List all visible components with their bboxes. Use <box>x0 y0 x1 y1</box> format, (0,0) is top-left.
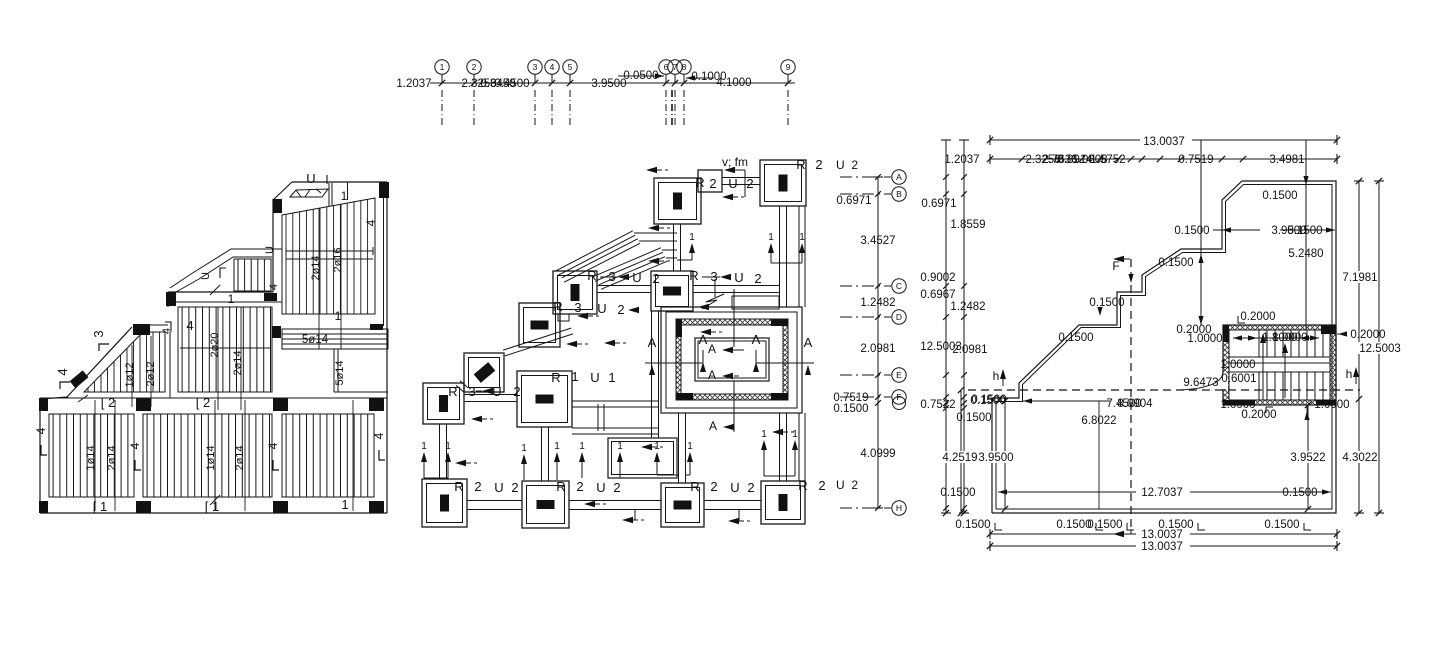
svg-text:R: R <box>587 268 596 283</box>
svg-text:R: R <box>448 384 457 399</box>
svg-text:4: 4 <box>266 442 280 449</box>
svg-text:1: 1 <box>689 232 695 243</box>
svg-text:U: U <box>597 301 606 316</box>
svg-text:2ø14: 2ø14 <box>106 445 118 470</box>
svg-text:2: 2 <box>576 479 583 494</box>
svg-text:A: A <box>708 368 716 382</box>
svg-text:2: 2 <box>617 302 624 317</box>
svg-text:2ø14: 2ø14 <box>234 445 246 470</box>
svg-text:A: A <box>648 335 657 350</box>
svg-text:8: 8 <box>682 62 687 72</box>
svg-text:3: 3 <box>574 300 581 315</box>
svg-text:7.1981: 7.1981 <box>1342 272 1377 284</box>
svg-text:0.1500: 0.1500 <box>1089 297 1124 309</box>
svg-text:1: 1 <box>792 429 798 440</box>
svg-text:13.0037: 13.0037 <box>1143 136 1185 148</box>
svg-text:0.6967: 0.6967 <box>920 289 955 301</box>
svg-text:1: 1 <box>228 292 235 306</box>
svg-text:1: 1 <box>554 441 560 452</box>
svg-text:2ø20: 2ø20 <box>209 332 221 357</box>
svg-text:U: U <box>632 270 641 285</box>
svg-text:3.4981: 3.4981 <box>1269 154 1304 166</box>
svg-text:R: R <box>690 479 699 494</box>
svg-text:0.1500: 0.1500 <box>956 412 991 424</box>
svg-text:R: R <box>796 157 805 172</box>
svg-text:1ø14: 1ø14 <box>85 445 97 470</box>
svg-text:3.9522: 3.9522 <box>1290 452 1325 464</box>
svg-text:2ø16: 2ø16 <box>332 247 344 272</box>
svg-text:2.0981: 2.0981 <box>860 343 895 355</box>
svg-text:5.2480: 5.2480 <box>1288 248 1323 260</box>
svg-text:R: R <box>689 268 698 283</box>
svg-text:0.1500: 0.1500 <box>1282 487 1317 499</box>
svg-text:5ø14: 5ø14 <box>334 360 346 385</box>
svg-text:R: R <box>798 478 807 493</box>
svg-text:2: 2 <box>513 384 520 399</box>
svg-text:B: B <box>896 189 902 199</box>
svg-text:1.0000: 1.0000 <box>1272 332 1307 344</box>
svg-text:0.1500: 0.1500 <box>1058 332 1093 344</box>
svg-text:5ø14: 5ø14 <box>302 334 329 346</box>
svg-text:R: R <box>553 299 562 314</box>
svg-text:1: 1 <box>571 369 578 384</box>
svg-text:1: 1 <box>341 497 348 512</box>
svg-text:1.2037: 1.2037 <box>396 78 431 90</box>
svg-text:3: 3 <box>533 62 538 72</box>
svg-text:0.4500: 0.4500 <box>494 78 529 90</box>
svg-text:2.0981: 2.0981 <box>952 344 987 356</box>
svg-text:3: 3 <box>91 330 106 337</box>
svg-text:1.2037: 1.2037 <box>944 154 979 166</box>
svg-text:1: 1 <box>687 441 693 452</box>
svg-text:h: h <box>993 369 1000 383</box>
svg-text:0.2000: 0.2000 <box>1240 311 1275 323</box>
svg-text:2: 2 <box>511 480 518 495</box>
svg-text:1: 1 <box>761 429 767 440</box>
svg-text:1: 1 <box>579 441 585 452</box>
svg-text:4.0999: 4.0999 <box>860 448 895 460</box>
svg-text:2: 2 <box>472 62 477 72</box>
svg-text:2ø14: 2ø14 <box>232 350 244 375</box>
svg-text:A: A <box>708 342 716 356</box>
svg-text:1ø14: 1ø14 <box>205 445 217 470</box>
svg-text:R: R <box>556 479 565 494</box>
svg-text:U: U <box>494 480 503 495</box>
svg-text:3.9500: 3.9500 <box>591 78 626 90</box>
svg-text:U: U <box>200 272 212 280</box>
svg-text:8.0904: 8.0904 <box>1117 398 1153 410</box>
svg-text:9.6473: 9.6473 <box>1183 377 1218 389</box>
svg-text:3.4527: 3.4527 <box>860 235 895 247</box>
svg-text:1: 1 <box>440 62 445 72</box>
svg-text:2ø12: 2ø12 <box>145 361 157 386</box>
svg-text:1.2482: 1.2482 <box>860 297 895 309</box>
svg-text:D: D <box>896 312 902 322</box>
svg-text:A: A <box>699 332 708 347</box>
svg-text:2: 2 <box>613 480 620 495</box>
svg-text:4: 4 <box>186 318 193 333</box>
svg-text:F: F <box>1112 259 1119 273</box>
svg-text:0.2000: 0.2000 <box>1241 409 1276 421</box>
svg-text:4.2519: 4.2519 <box>942 452 977 464</box>
svg-text:[ 1: [ 1 <box>93 499 107 514</box>
svg-text:0.6971: 0.6971 <box>921 198 956 210</box>
svg-text:3: 3 <box>468 384 475 399</box>
svg-text:12.5003: 12.5003 <box>1359 343 1401 355</box>
svg-text:U: U <box>596 480 605 495</box>
svg-text:4: 4 <box>55 368 70 375</box>
svg-text:h: h <box>1346 367 1353 381</box>
svg-text:13.0037: 13.0037 <box>1141 541 1183 553</box>
svg-text:0.1500: 0.1500 <box>1158 257 1193 269</box>
svg-text:v; fm: v; fm <box>722 155 748 169</box>
svg-text:0.1500: 0.1500 <box>1287 225 1322 237</box>
svg-text:U: U <box>734 270 743 285</box>
svg-text:2: 2 <box>818 478 825 493</box>
svg-text:2: 2 <box>710 479 717 494</box>
svg-text:1: 1 <box>768 232 774 243</box>
svg-text:0.1500: 0.1500 <box>940 487 975 499</box>
svg-text:[ 1: [ 1 <box>205 499 219 514</box>
svg-text:4.1000: 4.1000 <box>716 77 751 89</box>
svg-text:1.0000: 1.0000 <box>1187 333 1222 345</box>
svg-text:4: 4 <box>34 427 48 434</box>
svg-text:0.7522: 0.7522 <box>920 399 955 411</box>
svg-text:1: 1 <box>608 370 615 385</box>
svg-text:U: U <box>590 370 599 385</box>
svg-text:0.7519: 0.7519 <box>1178 154 1213 166</box>
svg-text:0.1500: 0.1500 <box>1174 225 1209 237</box>
svg-text:0.1500: 0.1500 <box>1262 190 1297 202</box>
svg-text:3.9500: 3.9500 <box>978 452 1013 464</box>
svg-text:U 2: U 2 <box>836 158 858 172</box>
svg-text:2ø14: 2ø14 <box>310 255 322 280</box>
svg-text:0.1500: 0.1500 <box>1087 519 1122 531</box>
svg-text:1: 1 <box>521 443 527 454</box>
svg-text:4: 4 <box>550 62 555 72</box>
svg-text:A: A <box>896 172 902 182</box>
svg-text:4: 4 <box>372 432 386 439</box>
svg-text:1: 1 <box>799 232 805 243</box>
svg-text:1.2482: 1.2482 <box>950 301 985 313</box>
svg-text:R: R <box>454 479 463 494</box>
svg-text:A: A <box>804 335 813 350</box>
svg-text:0.1500: 0.1500 <box>970 395 1005 407</box>
svg-text:9: 9 <box>786 62 791 72</box>
svg-text:0.2000: 0.2000 <box>1350 329 1385 341</box>
svg-text:U 2: U 2 <box>836 478 858 492</box>
svg-text:0.1500: 0.1500 <box>833 403 868 415</box>
svg-text:2: 2 <box>746 176 753 191</box>
svg-text:4: 4 <box>128 442 142 449</box>
svg-text:2: 2 <box>747 480 754 495</box>
svg-text:[ 2: [ 2 <box>196 395 210 410</box>
svg-text:2: 2 <box>652 271 659 286</box>
svg-text:R: R <box>695 175 704 190</box>
svg-text:0.9002: 0.9002 <box>920 272 955 284</box>
svg-text:A: A <box>752 332 761 347</box>
svg-text:1: 1 <box>617 441 623 452</box>
svg-text:U: U <box>306 171 315 186</box>
svg-text:2: 2 <box>754 271 761 286</box>
svg-text:12.7037: 12.7037 <box>1141 487 1183 499</box>
svg-text:E: E <box>896 370 902 380</box>
svg-text:1ø12: 1ø12 <box>124 362 136 387</box>
svg-text:0.6001: 0.6001 <box>1221 373 1256 385</box>
svg-text:U: U <box>264 246 276 254</box>
svg-text:A: A <box>709 419 717 433</box>
svg-text:0.6971: 0.6971 <box>836 195 871 207</box>
svg-text:2: 2 <box>709 176 716 191</box>
svg-text:2: 2 <box>474 479 481 494</box>
svg-text:1: 1 <box>341 189 348 203</box>
svg-text:1.0000: 1.0000 <box>1314 399 1349 411</box>
svg-text:U: U <box>730 480 739 495</box>
svg-text:C: C <box>896 281 902 291</box>
svg-text:1: 1 <box>421 441 427 452</box>
svg-text:1: 1 <box>445 441 451 452</box>
svg-text:0.1500: 0.1500 <box>955 519 990 531</box>
svg-text:1: 1 <box>335 309 342 323</box>
svg-text:1.8559: 1.8559 <box>950 219 985 231</box>
svg-text:5: 5 <box>568 62 573 72</box>
svg-text:R: R <box>551 370 560 385</box>
svg-text:0.1500: 0.1500 <box>1056 519 1091 531</box>
svg-text:U: U <box>492 384 501 399</box>
svg-text:U: U <box>728 176 737 191</box>
svg-text:4: 4 <box>268 284 280 290</box>
svg-text:13.0037: 13.0037 <box>1141 529 1183 541</box>
svg-text:1.0000: 1.0000 <box>1220 359 1255 371</box>
svg-text:2: 2 <box>815 157 822 172</box>
svg-text:0.1500: 0.1500 <box>1264 519 1299 531</box>
svg-text:1.5752: 1.5752 <box>1090 154 1125 166</box>
svg-text:4: 4 <box>364 219 378 226</box>
svg-text:4.3022: 4.3022 <box>1342 452 1377 464</box>
svg-text:H: H <box>896 503 902 513</box>
svg-text:[ 2: [ 2 <box>101 395 115 410</box>
